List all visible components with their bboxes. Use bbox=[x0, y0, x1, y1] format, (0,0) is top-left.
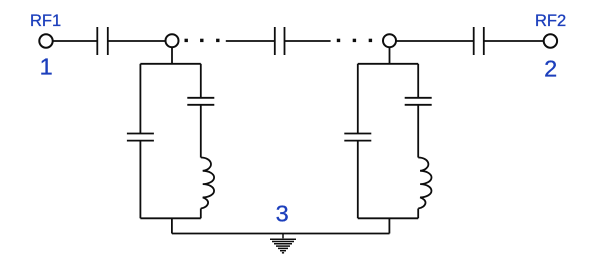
svg-text:1: 1 bbox=[40, 54, 53, 80]
svg-text:RF2: RF2 bbox=[535, 12, 566, 30]
svg-text:2: 2 bbox=[544, 55, 557, 81]
svg-text:RF1: RF1 bbox=[30, 12, 61, 30]
svg-text:3: 3 bbox=[276, 200, 289, 226]
